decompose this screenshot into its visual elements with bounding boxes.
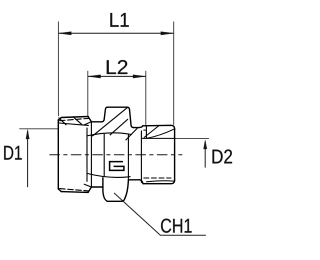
hex right face top [128,107,134,127]
left thread top runout diagonal 2 [73,117,82,125]
label L1 [110,13,128,27]
left thread top chamfer [58,118,61,120]
left junction chamfer diagonal top [84,122,91,125]
left junction bend bottom [88,187,91,192]
right thread face vertical [140,131,142,183]
hex edge vertical right [127,134,129,179]
junction face vertical left b [90,122,92,187]
extension line L2 left [87,71,89,116]
arrow L2 left [88,75,101,78]
right thread bottom edge [143,180,175,184]
junction face vertical left a [86,128,88,182]
dimension line L2 [88,75,146,77]
hex bottom flat [107,200,122,202]
right thread chamfer arc top [147,129,174,138]
label D2 [213,149,233,163]
hex top flat [107,106,127,108]
step to right thread top [139,126,143,128]
hex bottom-left valley [91,186,103,188]
hex chamfer diagonal top 2 [110,119,128,135]
extension line L1 right [173,22,175,125]
left thread bottom chamfer [58,189,61,192]
arrow D1 (up) [26,129,29,139]
right thread right edge [174,129,176,180]
left thread bottom edge [61,191,88,194]
extension line L1 left [57,22,59,117]
right thread runout diagonal [144,126,158,137]
hex chamfer arc bottom [87,173,131,177]
leader line D2 [175,137,209,139]
chamfer diagonal right neck [126,128,138,140]
right thread root dashed bottom [144,177,171,179]
label D1 [4,146,22,160]
body outline group [58,117,91,193]
hex left lobe edge bottom [103,178,107,201]
right valley top [134,127,140,129]
arrow L1 left [59,32,72,35]
label L2 [107,60,128,74]
hex edge vertical left [103,134,105,177]
leader line D1 [19,128,58,130]
arrow D2 (up) [204,140,207,149]
right thread top edge [143,125,175,129]
right thread root line top [142,137,175,139]
left thread top edge [61,117,88,118]
label CH1 [161,219,192,233]
right valley bottom [128,179,139,181]
leader line CH1 [114,193,206,235]
left thread bottom root line (dashed) [60,189,89,191]
left thread top root line (dashed) [60,118,89,120]
right thread chamfer arc bottom [147,181,174,182]
left junction bend top [88,117,91,122]
arrow L1 right [161,32,174,35]
hex chamfer arc top [87,133,132,136]
extension line L2 right [145,71,147,125]
hex right face bottom [122,180,128,201]
left junction chamfer diagonal bottom [84,184,91,187]
hex left face top [102,107,107,122]
hex chamfer diagonal top 1 [92,107,127,136]
left thread top band boundary [59,123,89,125]
dimension line L1 [58,32,173,34]
hex top-left valley [91,121,102,123]
thread runout end vertical [145,126,147,138]
centerline [49,154,182,156]
right thread root dashed top [144,129,146,131]
left thread left edge [57,120,59,189]
step to right thread bottom [140,180,143,184]
left thread top runout diagonal 1 [59,118,66,125]
arrow L2 right [133,75,146,78]
port symbol (G mark) [110,162,124,171]
